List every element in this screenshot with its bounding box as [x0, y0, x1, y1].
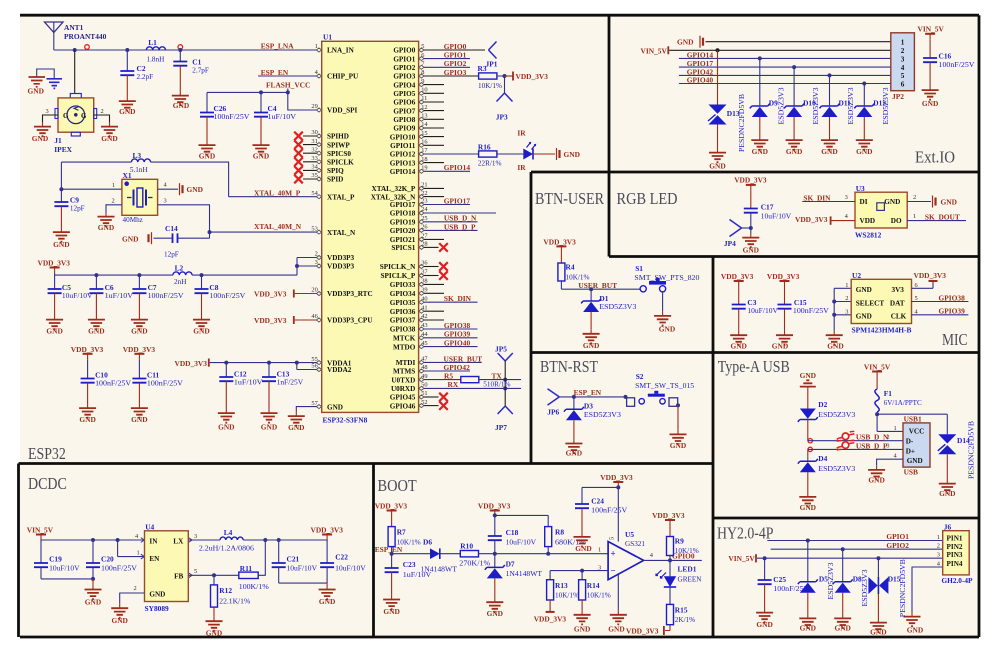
- svg-text:C23: C23: [403, 560, 416, 569]
- svg-text:100nF/25V: 100nF/25V: [214, 113, 251, 121]
- svg-text:VDD_3V3: VDD_3V3: [795, 215, 828, 224]
- svg-text:VDDA2: VDDA2: [327, 366, 352, 374]
- svg-text:2: 2: [913, 194, 916, 201]
- svg-text:GPIO9: GPIO9: [393, 125, 415, 133]
- svg-text:2.2uH/1.2A/0806: 2.2uH/1.2A/0806: [199, 545, 254, 553]
- junction node antenna: [73, 48, 77, 52]
- svg-text:100K/1%: 100K/1%: [239, 583, 269, 591]
- ground under U5: [608, 610, 627, 633]
- svg-text:FLASH_VCC: FLASH_VCC: [266, 80, 310, 89]
- svg-text:R9: R9: [675, 537, 684, 546]
- svg-text:SPIWP: SPIWP: [327, 141, 350, 149]
- svg-text:GND: GND: [870, 628, 886, 637]
- svg-text:10uF/10V: 10uF/10V: [62, 292, 93, 300]
- svg-text:10K/1%: 10K/1%: [675, 547, 699, 555]
- wire GPIO14: [424, 170, 470, 172]
- svg-text:GND: GND: [173, 101, 189, 110]
- wire row4 GPIO17: [679, 65, 891, 69]
- svg-text:ESD5Z3V3: ESD5Z3V3: [861, 569, 869, 606]
- ground under J1 pin3: [32, 122, 51, 143]
- svg-text:5: 5: [609, 537, 616, 540]
- input caps bottom rail: [41, 577, 95, 585]
- LX output wire: [188, 538, 327, 542]
- capacitor C11: [132, 360, 183, 404]
- svg-text:100nF/25V: 100nF/25V: [793, 307, 830, 315]
- resistor R9: [667, 537, 699, 561]
- svg-text:GS321: GS321: [625, 540, 645, 548]
- power flag VDD_3V3 C24: [600, 473, 633, 489]
- svg-text:GND: GND: [922, 99, 938, 108]
- wire GPIO3: [424, 75, 479, 77]
- VDDA wire: [210, 361, 317, 370]
- resistor R16: [478, 142, 502, 167]
- svg-text:GH2.0-4P: GH2.0-4P: [942, 576, 973, 585]
- svg-text:GPIO36: GPIO36: [390, 308, 416, 316]
- svg-text:GPIO37: GPIO37: [390, 317, 416, 325]
- svg-text:VIN_5V: VIN_5V: [641, 47, 668, 56]
- svg-text:R8: R8: [555, 528, 564, 537]
- svg-text:GND: GND: [752, 147, 768, 156]
- wire row5 GPIO42: [679, 73, 891, 77]
- svg-text:D+: D+: [906, 447, 915, 455]
- ground under C20: [85, 585, 102, 607]
- ground under D3: [565, 439, 582, 458]
- svg-text:GPIO13: GPIO13: [390, 159, 416, 167]
- svg-text:F1: F1: [884, 389, 893, 398]
- svg-text:VIN_5V: VIN_5V: [864, 363, 891, 372]
- regulator U4: [145, 523, 189, 613]
- svg-text:GPIO38: GPIO38: [390, 326, 416, 334]
- TVS diode D8: [833, 549, 862, 614]
- opamp pin5 wire: [617, 487, 619, 541]
- inductor L4: [199, 528, 254, 553]
- svg-text:2: 2: [845, 295, 848, 302]
- wire row3 GPIO14: [679, 56, 891, 60]
- svg-text:VDD: VDD: [860, 217, 876, 225]
- svg-text:1N4148WT: 1N4148WT: [420, 565, 457, 573]
- node circle marker N: [808, 439, 812, 443]
- svg-text:R3: R3: [478, 64, 487, 73]
- svg-text:J1: J1: [54, 136, 62, 145]
- ground under S1: [654, 311, 675, 333]
- svg-text:5.1nH: 5.1nH: [130, 166, 148, 174]
- svg-text:GND: GND: [564, 150, 580, 159]
- power flag VDD_3V3 C15: [767, 272, 800, 287]
- svg-text:USB_D_P: USB_D_P: [444, 222, 476, 231]
- wire GPIO38 MIC: [912, 301, 969, 303]
- wire XTAL_40M_N: [210, 231, 317, 233]
- ground under C8: [193, 315, 210, 336]
- wire USER_BUT node: [561, 281, 640, 291]
- svg-text:6: 6: [901, 80, 905, 88]
- svg-text:C22: C22: [335, 553, 348, 562]
- svg-text:GND: GND: [187, 185, 203, 194]
- wire RX row: [424, 386, 521, 390]
- svg-text:12pF: 12pF: [70, 205, 85, 213]
- svg-text:JP3: JP3: [496, 112, 508, 121]
- ground under D14: [939, 479, 956, 498]
- ground under C6: [88, 315, 105, 336]
- svg-text:C19: C19: [49, 555, 62, 564]
- capacitor C26: [200, 92, 250, 140]
- capacitor C23: [385, 554, 433, 595]
- U3 pin2 wire: [907, 201, 931, 203]
- ground under C9: [53, 228, 70, 249]
- svg-text:SPID: SPID: [327, 176, 343, 184]
- svg-text:12pF: 12pF: [164, 250, 179, 258]
- svg-text:2nH: 2nH: [174, 278, 186, 286]
- TVS diode D4: [798, 454, 856, 492]
- svg-text:ESD5Z3V3: ESD5Z3V3: [818, 465, 855, 473]
- svg-text:C24: C24: [591, 497, 604, 506]
- svg-text:3: 3: [194, 533, 197, 540]
- svg-text:SPICS0: SPICS0: [327, 150, 351, 158]
- wire USB_D_P: [424, 229, 478, 231]
- ground under S2: [670, 430, 687, 450]
- svg-text:GREEN: GREEN: [678, 576, 703, 584]
- svg-text:GND: GND: [856, 312, 872, 320]
- svg-text:GND: GND: [941, 198, 957, 207]
- svg-text:GND: GND: [856, 286, 872, 294]
- svg-text:100nF/25V: 100nF/25V: [95, 380, 132, 388]
- svg-text:ESP_EN: ESP_EN: [261, 68, 289, 77]
- svg-text:U1: U1: [323, 33, 332, 42]
- wire GPIO40: [424, 346, 478, 348]
- U2 pin6 VDD wire: [912, 271, 947, 288]
- TVS diode D13: [708, 50, 740, 148]
- svg-text:40Mhz: 40Mhz: [123, 216, 143, 224]
- svg-text:USB: USB: [904, 467, 918, 476]
- TVS diode D2: [798, 387, 856, 422]
- input rail wire: [41, 538, 145, 542]
- opamp ground wire: [617, 574, 619, 610]
- svg-text:PESDNC2FD5VB: PESDNC2FD5VB: [968, 421, 976, 479]
- USB1 pin4 wire: [877, 459, 903, 465]
- svg-text:C25: C25: [773, 575, 786, 584]
- power flag VDD_3V3 R4: [543, 238, 576, 264]
- svg-text:D3: D3: [584, 401, 593, 410]
- svg-text:3: 3: [937, 552, 940, 559]
- svg-text:C3: C3: [747, 298, 756, 307]
- svg-text:C26: C26: [214, 104, 227, 113]
- U4 pin arrows: [141, 538, 192, 578]
- svg-text:GPIO38: GPIO38: [444, 321, 471, 330]
- svg-text:DAT: DAT: [890, 300, 905, 308]
- svg-text:1uF/10V: 1uF/10V: [105, 292, 134, 300]
- svg-text:10uF/10V: 10uF/10V: [747, 307, 778, 315]
- svg-text:R12: R12: [219, 586, 232, 595]
- svg-text:ESP_EN: ESP_EN: [574, 388, 602, 397]
- svg-text:GND: GND: [868, 476, 884, 485]
- svg-text:1: 1: [845, 282, 848, 289]
- svg-text:VIN_5V: VIN_5V: [728, 554, 755, 563]
- svg-text:GPIO40: GPIO40: [687, 75, 714, 84]
- svg-text:VDD_3V3: VDD_3V3: [543, 238, 576, 247]
- svg-text:GND: GND: [608, 624, 624, 633]
- svg-text:SPICS1: SPICS1: [391, 244, 415, 252]
- svg-text:VDD_3V3: VDD_3V3: [652, 511, 685, 520]
- svg-text:JP2: JP2: [892, 92, 904, 101]
- U3 pin1 wire SK_DOUT: [907, 220, 966, 222]
- wire SK_DIN: [424, 301, 478, 303]
- svg-text:1: 1: [913, 213, 916, 220]
- svg-text:GPIO7: GPIO7: [393, 107, 415, 115]
- capacitor C5: [48, 275, 94, 315]
- svg-text:CLK: CLK: [891, 312, 907, 320]
- svg-text:VDD_3V3: VDD_3V3: [254, 290, 287, 299]
- LED D IR: [523, 143, 535, 160]
- ESP_EN node: [390, 547, 394, 556]
- svg-text:GPIO8: GPIO8: [393, 116, 415, 124]
- svg-text:GND: GND: [487, 609, 503, 618]
- svg-text:100nF/25V: 100nF/25V: [939, 61, 976, 69]
- svg-text:10uF/10V: 10uF/10V: [761, 213, 792, 221]
- power flag VIN_5V F1: [864, 363, 891, 389]
- svg-text:GPIO17: GPIO17: [444, 196, 471, 205]
- svg-text:1nF/25V: 1nF/25V: [277, 379, 304, 387]
- svg-text:GPIO0: GPIO0: [393, 47, 415, 55]
- svg-text:VDD_3V3: VDD_3V3: [600, 473, 633, 482]
- svg-text:1: 1: [598, 547, 601, 554]
- svg-text:BOOT: BOOT: [378, 476, 417, 495]
- svg-text:+: +: [611, 549, 616, 559]
- svg-text:100nF/25V: 100nF/25V: [147, 380, 184, 388]
- svg-text:RX: RX: [448, 380, 459, 389]
- svg-text:GPIO21: GPIO21: [390, 236, 416, 244]
- wire TX row: [424, 379, 461, 381]
- wire USB_D_P row: [808, 449, 903, 461]
- svg-text:ESP32-S3FN8: ESP32-S3FN8: [323, 416, 368, 425]
- svg-text:RGB LED: RGB LED: [617, 189, 678, 208]
- svg-text:C7: C7: [148, 283, 157, 292]
- wire GPIO18 long: [424, 212, 496, 214]
- power flag VIN_5V ExtIO: [641, 46, 669, 55]
- svg-text:GND: GND: [46, 327, 62, 336]
- svg-text:XTAL_N: XTAL_N: [327, 229, 356, 237]
- svg-text:GND: GND: [575, 544, 591, 553]
- wire R16 to LED: [497, 153, 523, 155]
- U1 left pin numbers: [311, 43, 318, 407]
- svg-text:L4: L4: [224, 528, 233, 537]
- node circle marker P: [808, 447, 812, 451]
- wire L3 to XTAL_P: [151, 162, 317, 197]
- svg-text:R10: R10: [460, 542, 473, 551]
- wire row6 GPIO40: [679, 82, 891, 86]
- svg-text:HY2.0-4P: HY2.0-4P: [717, 524, 774, 543]
- minus input wire: [580, 569, 608, 573]
- svg-text:C13: C13: [277, 370, 290, 379]
- X mark pin36: [424, 262, 448, 271]
- ground under D1: [583, 329, 600, 350]
- svg-text:3: 3: [164, 197, 167, 204]
- svg-text:1: 1: [112, 182, 115, 189]
- power flag VDD_3V3 rail: [38, 259, 71, 276]
- svg-text:GND: GND: [730, 341, 746, 350]
- svg-text:SMT_SW_TS_015: SMT_SW_TS_015: [635, 382, 694, 390]
- LED1: [656, 560, 702, 587]
- svg-text:C21: C21: [287, 555, 300, 564]
- TVS diode D10: [784, 67, 816, 135]
- ground under C5: [46, 315, 63, 336]
- svg-text:C12: C12: [234, 370, 247, 379]
- resistor R8: [545, 527, 586, 554]
- IC U3 WS2812: [855, 184, 907, 239]
- svg-text:VIN_5V: VIN_5V: [918, 25, 945, 34]
- left X mark pins 30-35: [294, 132, 316, 184]
- wire row2 VIN_5V: [669, 48, 891, 52]
- svg-text:5: 5: [194, 568, 197, 575]
- svg-text:VIN_5V: VIN_5V: [27, 526, 54, 535]
- VDD 3V3 rail wire: [55, 258, 317, 278]
- TX node wire: [479, 378, 521, 382]
- U1 pin diamond glyphs: [316, 48, 424, 409]
- wire GPIO2 row: [771, 547, 943, 551]
- svg-text:VDD_3V3: VDD_3V3: [516, 72, 549, 81]
- svg-text:VDD_3V3: VDD_3V3: [311, 526, 344, 535]
- resistor R12: [211, 575, 251, 616]
- svg-text:VDD_SPI: VDD_SPI: [327, 107, 358, 115]
- ground tie blue chassis: [47, 79, 63, 89]
- svg-text:GPIO6: GPIO6: [393, 99, 415, 107]
- svg-text:SPICLK_P: SPICLK_P: [381, 272, 416, 280]
- svg-text:2.7pF: 2.7pF: [192, 66, 209, 74]
- svg-text:S1: S1: [635, 264, 643, 273]
- ESP32 chip U1 body: [322, 33, 419, 425]
- capacitor C10: [81, 360, 132, 404]
- ground under C26: [199, 141, 216, 161]
- power flag VDD_3V3 pin20: [254, 290, 316, 299]
- svg-text:1uF/10V: 1uF/10V: [268, 113, 297, 121]
- wire GPIO38: [424, 328, 478, 330]
- svg-text:GND: GND: [800, 624, 816, 633]
- FLASH_VCC node and wires: [207, 89, 316, 111]
- U1 right pin names: [371, 47, 416, 411]
- svg-text:GPIO1: GPIO1: [886, 532, 909, 541]
- wire GPIO1 row: [767, 539, 942, 543]
- error marker circle 2: [178, 45, 183, 50]
- resistor R11: [239, 564, 269, 591]
- TVS diode D9: [750, 58, 778, 135]
- power flag VIN_5V hy: [728, 554, 756, 563]
- svg-text:−: −: [611, 566, 616, 576]
- svg-text:2: 2: [901, 47, 905, 55]
- node C9/X1: [59, 162, 122, 191]
- svg-text:GPIO3: GPIO3: [444, 68, 467, 77]
- svg-text:GND: GND: [218, 422, 234, 431]
- svg-text:ESD5Z3V3: ESD5Z3V3: [584, 411, 621, 419]
- svg-text:GPIO39: GPIO39: [939, 307, 966, 316]
- svg-text:BTN-USER: BTN-USER: [535, 189, 604, 208]
- resistor R15: [667, 587, 696, 625]
- capacitor C9: [54, 189, 84, 227]
- svg-text:3: 3: [46, 108, 49, 115]
- ground under C10: [79, 404, 96, 424]
- ground under C1: [172, 91, 189, 110]
- X mark pin37: [424, 271, 448, 280]
- svg-text:3: 3: [845, 194, 848, 201]
- svg-text:DI: DI: [860, 198, 868, 206]
- power flag VDD_3V3 C17: [734, 176, 767, 191]
- svg-text:VDD_3V3: VDD_3V3: [626, 626, 659, 635]
- svg-text:100nF/25V: 100nF/25V: [209, 292, 246, 300]
- svg-text:1: 1: [937, 534, 940, 541]
- svg-text:GND: GND: [786, 147, 802, 156]
- svg-text:VDD_3V3: VDD_3V3: [767, 272, 800, 281]
- TVS diode D5: [798, 541, 828, 614]
- switch S2: [627, 372, 695, 407]
- svg-text:1uF/10V: 1uF/10V: [234, 379, 263, 387]
- svg-text:S2: S2: [636, 372, 644, 381]
- svg-text:C10: C10: [95, 371, 108, 380]
- svg-text:D-: D-: [906, 438, 914, 446]
- svg-text:XTAL_32K_P: XTAL_32K_P: [372, 185, 416, 193]
- ground under C22: [319, 583, 336, 606]
- wire ESP_EN node: [559, 395, 627, 399]
- svg-text:PESDNC2FD5VB: PESDNC2FD5VB: [899, 559, 907, 617]
- power flag VIN_5V dcdc: [27, 526, 54, 541]
- svg-text:C4: C4: [268, 104, 277, 113]
- switch S1: [634, 264, 699, 292]
- svg-text:GND: GND: [206, 628, 222, 637]
- svg-text:270K/1%: 270K/1%: [459, 560, 490, 568]
- svg-text:GND: GND: [88, 327, 104, 336]
- svg-text:C17: C17: [761, 202, 774, 211]
- wire USB_D_N: [424, 221, 478, 223]
- ground under D4: [799, 492, 816, 512]
- svg-text:GPIO40: GPIO40: [444, 339, 471, 348]
- power flag VIN_5V C16: [918, 25, 945, 40]
- wire ESP_EN: [258, 75, 316, 77]
- svg-text:D2: D2: [818, 400, 827, 409]
- svg-text:C8: C8: [209, 283, 218, 292]
- capacitor C17: [744, 191, 792, 233]
- svg-text:GPIO45: GPIO45: [390, 394, 416, 402]
- svg-text:GND: GND: [253, 152, 269, 161]
- svg-text:MTDI: MTDI: [396, 359, 416, 367]
- svg-text:GPIO1: GPIO1: [393, 55, 415, 63]
- svg-text:SK_DOUT: SK_DOUT: [925, 213, 960, 222]
- ground under D9: [751, 136, 768, 157]
- ground under J1 pin2: [101, 122, 118, 143]
- capacitor C15: [778, 287, 830, 331]
- svg-text:C16: C16: [939, 52, 952, 61]
- svg-text:DO: DO: [891, 217, 902, 225]
- svg-text:GPIO2: GPIO2: [886, 541, 909, 550]
- ground under C24: [574, 532, 592, 553]
- svg-text:1.8nH: 1.8nH: [147, 55, 165, 63]
- power flag VDD_3V3 C18: [478, 502, 548, 527]
- svg-text:GPIO2: GPIO2: [444, 59, 467, 68]
- svg-text:ESD5Z3V3: ESD5Z3V3: [847, 87, 855, 124]
- X mark pin52: [424, 401, 448, 410]
- power flag VDD_3V3 VDDA: [175, 359, 209, 368]
- svg-text:GND: GND: [327, 403, 343, 411]
- svg-text:L3: L3: [132, 151, 141, 160]
- svg-text:D1: D1: [599, 294, 608, 303]
- wire LED to gnd flag: [533, 153, 555, 155]
- svg-text:VDD_3V3: VDD_3V3: [254, 316, 287, 325]
- svg-text:SMT_SW_PTS_820: SMT_SW_PTS_820: [634, 274, 699, 282]
- resistor R10: [459, 542, 490, 568]
- U4 GND wire: [120, 593, 145, 604]
- resistor R14: [579, 571, 611, 611]
- ground under C23: [383, 595, 400, 616]
- jumper JP3: [496, 93, 513, 121]
- capacitor C16: [923, 40, 975, 86]
- power flag VDD_3V3 C11: [123, 345, 156, 360]
- svg-text:GND: GND: [800, 371, 816, 380]
- ground under C3: [730, 331, 747, 351]
